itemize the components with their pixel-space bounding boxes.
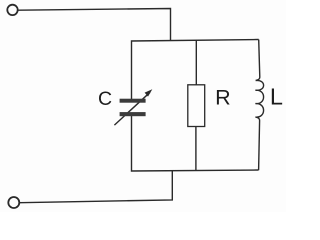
svg-text:L: L [270,83,283,109]
svg-text:C: C [98,88,112,110]
svg-text:R: R [215,86,231,110]
